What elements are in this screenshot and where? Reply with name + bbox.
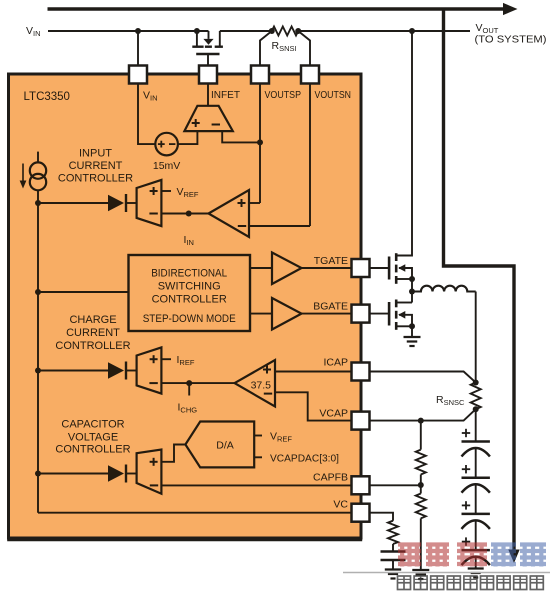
svg-text:STEP-DOWN MODE: STEP-DOWN MODE xyxy=(143,313,236,325)
svg-text:VCAPDAC[3:0]: VCAPDAC[3:0] xyxy=(270,452,339,464)
wire VOUTSN kelvin drop xyxy=(298,31,310,66)
buffer B2 BGATE driver xyxy=(272,298,302,330)
wire VOUTSN sense vertical xyxy=(309,84,311,227)
IC bottom border emphasis xyxy=(7,539,362,542)
pin VOUTSN xyxy=(301,66,319,84)
svg-text:CURRENT: CURRENT xyxy=(69,160,123,172)
resistor R_SNSI xyxy=(272,27,298,36)
source I1 pull-up current source xyxy=(37,152,39,163)
transistor Q2 bottom NFET gate bar xyxy=(388,302,391,326)
wire VIN pin to 15mV source xyxy=(138,84,155,145)
svg-text:VOUTSN: VOUTSN xyxy=(315,89,352,101)
svg-text:INFET: INFET xyxy=(211,89,241,101)
capacitor C1 supercap xyxy=(462,440,490,443)
wire divider to ground xyxy=(420,518,422,570)
wire sense bottom to cap stack xyxy=(475,409,477,441)
block bidirectional switching controller xyxy=(129,255,251,331)
op-amp A1 input current amp xyxy=(137,180,162,226)
wire A2 plus to VOUTSP xyxy=(249,202,260,204)
diode D3 capacitor voltage controller xyxy=(108,465,124,481)
pin INFET xyxy=(199,66,217,84)
transistor Q2 drain xyxy=(396,302,412,304)
wire box to TGATE buffer xyxy=(250,267,272,269)
svg-text:BGATE: BGATE xyxy=(313,301,348,313)
svg-text:15mV: 15mV xyxy=(153,160,180,172)
wire DAC VREF stub xyxy=(254,435,262,437)
node R_SNSI left xyxy=(269,28,275,34)
transistor M1 drain terminal xyxy=(219,31,221,46)
ground divider xyxy=(412,569,429,571)
transistor M1 body contact plate xyxy=(205,46,212,48)
transistor Q1 source xyxy=(396,278,412,280)
wire BGATE pin to gate xyxy=(370,313,390,315)
arrow VOUT bus right xyxy=(503,3,518,15)
op-amp A5 capacitor voltage amp xyxy=(137,450,162,494)
transistor M1 body diode arrow xyxy=(203,39,213,45)
wire A4 plus to ICAP pin xyxy=(275,371,352,373)
IC U1 LTC3350 body xyxy=(9,74,362,538)
node inductor junction xyxy=(409,289,415,295)
wire rail to diode D3 xyxy=(38,473,108,475)
node rail to charge diode xyxy=(35,368,41,374)
op-amp A4 37.5 gain amp xyxy=(235,360,275,407)
wire 15mV to comparator plus xyxy=(178,131,198,144)
wire A3 plus stub to IREF xyxy=(161,358,171,360)
node Q2 source xyxy=(409,323,415,329)
op-amp A3 charge current amp xyxy=(137,347,162,393)
arrow VOUT rail bottom xyxy=(508,550,519,564)
wire TGATE pin to gate xyxy=(370,267,390,269)
wire VCAP pin to sense bottom xyxy=(370,409,476,420)
node I_IN xyxy=(186,211,192,217)
node I_CHG xyxy=(186,380,192,386)
transistor M1 source contact plate xyxy=(192,46,203,48)
transistor Q2 body connection xyxy=(399,315,412,327)
wire cap stack to ground xyxy=(475,557,477,569)
transistor M1 drain contact plate xyxy=(215,46,223,48)
node comparator minus / VOUTSP xyxy=(257,139,263,145)
wire VIN pin drop xyxy=(137,31,139,66)
diode D2 charge controller xyxy=(108,362,124,378)
transistor M1 input FET source terminal xyxy=(196,31,198,46)
ground supercap stack xyxy=(468,567,484,569)
transistor M1 body drop xyxy=(208,31,210,39)
wire TGATE buffer to pin xyxy=(302,267,352,269)
transistor Q2 source xyxy=(396,325,412,327)
svg-text:CAPACITOR: CAPACITOR xyxy=(61,419,124,431)
svg-text:VCAP: VCAP xyxy=(319,408,348,420)
wire switch node vertical xyxy=(411,279,413,303)
svg-text:VOUTSP: VOUTSP xyxy=(265,89,302,101)
pin VIN xyxy=(129,66,147,84)
transistor M1 gate wire to INFET pin xyxy=(207,54,209,66)
wire ICAP pin to sense top xyxy=(370,372,476,383)
svg-text:TGATE: TGATE xyxy=(314,255,348,267)
transistor Q1 drain xyxy=(396,31,412,256)
capacitor C2 supercap xyxy=(462,476,490,479)
wire A5 minus to CAPFB pin xyxy=(161,484,351,486)
watermark text She Pin He Tian Xian She Ji Zhuan Jia xyxy=(398,576,411,590)
wire BGATE buffer to pin xyxy=(302,313,352,315)
wire comparator output to INFET pin xyxy=(207,84,209,106)
ground Q2 xyxy=(404,336,421,338)
svg-text:CONTROLLER: CONTROLLER xyxy=(55,340,130,352)
ground compensation xyxy=(385,568,401,570)
node input FET source junction xyxy=(194,28,200,34)
node CAPFB tap xyxy=(418,482,424,488)
svg-text:CONTROLLER: CONTROLLER xyxy=(58,173,133,185)
node R_SNSC bottom xyxy=(473,406,479,412)
node rail to input diode xyxy=(35,200,41,206)
wire divider middle xyxy=(420,475,422,494)
wire box to BGATE buffer xyxy=(250,313,272,315)
resistor R_SNSC xyxy=(471,383,481,410)
wire divider top xyxy=(420,421,422,450)
buffer B1 TGATE driver xyxy=(272,253,302,285)
wire A4 minus to VCAP xyxy=(275,392,352,420)
svg-text:VC: VC xyxy=(333,499,348,511)
arrow current direction xyxy=(22,164,24,182)
pin CAPFB xyxy=(352,476,370,494)
svg-text:SWITCHING: SWITCHING xyxy=(158,281,221,293)
wire VC pin to compensation xyxy=(370,513,394,521)
pin VCAP xyxy=(352,412,370,430)
op-amp U2 INFET comparator xyxy=(184,106,232,131)
wire A5 plus to DAC xyxy=(161,445,185,462)
wire I_CHG stub xyxy=(188,383,190,395)
wire comparator minus to VOUTSP sense xyxy=(222,131,260,142)
op-amp A2 input current sense amp xyxy=(209,190,250,237)
pin BGATE xyxy=(352,305,370,323)
wire VIN row left segment xyxy=(48,30,209,32)
resistor R3 compensation xyxy=(388,521,398,544)
node switch drain junction xyxy=(409,28,415,34)
pin TGATE xyxy=(352,259,370,277)
wire Q2 source to ground xyxy=(411,326,413,336)
transistor Q2 channel segments xyxy=(395,300,398,308)
capacitor C5 compensation xyxy=(381,550,406,552)
wire VOUT row to label xyxy=(298,30,470,32)
source V1 15mV offset xyxy=(155,133,178,156)
wire rail to diode D1 xyxy=(38,202,108,204)
transistor M1 gate plate xyxy=(196,53,219,55)
wire DAC VCAPDAC stub xyxy=(254,456,262,458)
transistor Q1 channel segments xyxy=(395,253,398,261)
wire VOUT thick rail xyxy=(444,8,515,551)
wire VOUTSP sense vertical xyxy=(259,84,261,204)
node VCAP divider tap xyxy=(418,418,424,424)
wire VC rail vertical xyxy=(37,190,39,512)
wire CAPFB pin to tap xyxy=(370,484,421,486)
watermark underline xyxy=(343,572,550,574)
block D/A converter xyxy=(185,422,254,468)
node VIN-pin junction xyxy=(135,28,141,34)
pin ICAP xyxy=(352,363,370,381)
svg-text:BIDIRECTIONAL: BIDIRECTIONAL xyxy=(151,268,227,280)
pin VOUTSP xyxy=(251,66,269,84)
capacitor C4 supercap xyxy=(462,549,490,552)
wire comp cap to ground xyxy=(392,560,394,570)
svg-text:CONTROLLER: CONTROLLER xyxy=(152,294,227,306)
resistor R2 divider bottom xyxy=(416,494,426,519)
wire comp resistor to cap xyxy=(392,544,394,552)
wire VOUTSP kelvin drop xyxy=(260,31,272,66)
svg-text:D/A: D/A xyxy=(216,440,234,452)
watermark text Yi Di Tuo Pei Xun xyxy=(398,543,421,567)
transistor Q1 body connection xyxy=(399,268,412,279)
resistor R1 divider top xyxy=(416,450,426,475)
svg-text:INPUT: INPUT xyxy=(79,148,112,160)
wire A1 plus stub to VREF xyxy=(161,190,171,192)
svg-text:ICAP: ICAP xyxy=(323,357,348,369)
wire A2 minus to VOUTSN xyxy=(249,225,310,227)
svg-text:VOLTAGE: VOLTAGE xyxy=(68,432,118,444)
wire VIN row right segment to VOUT node xyxy=(220,30,272,32)
transistor Q1 top NFET gate bar xyxy=(388,257,391,280)
wire inductor to R_SNSC xyxy=(475,292,477,383)
node R_SNSC top xyxy=(473,380,479,386)
capacitor C3 supercap xyxy=(462,513,490,516)
inductor L1 xyxy=(412,286,476,292)
node R_SNSI right xyxy=(295,28,301,34)
svg-text:CONTROLLER: CONTROLLER xyxy=(55,444,130,456)
node rail to capv diode xyxy=(35,471,41,477)
wire VOUT top bus xyxy=(48,7,505,10)
wire A1 minus to sense amp output xyxy=(161,213,208,215)
wire A3 minus to 37.5 amp xyxy=(161,382,234,384)
wire rail to controller box xyxy=(35,289,41,295)
svg-text:CAPFB: CAPFB xyxy=(313,471,348,483)
svg-text:37.5: 37.5 xyxy=(251,380,272,392)
wire rail bottom to VC pin xyxy=(38,512,352,514)
svg-text:LTC3350: LTC3350 xyxy=(24,91,70,103)
svg-text:(TO SYSTEM): (TO SYSTEM) xyxy=(475,35,547,46)
wire rail to diode D2 xyxy=(38,370,108,372)
svg-text:CURRENT: CURRENT xyxy=(66,327,120,339)
pin VC xyxy=(352,504,370,522)
svg-text:CHARGE: CHARGE xyxy=(69,314,116,326)
diode D1 input controller xyxy=(108,195,124,211)
node Q1 source xyxy=(409,276,415,282)
